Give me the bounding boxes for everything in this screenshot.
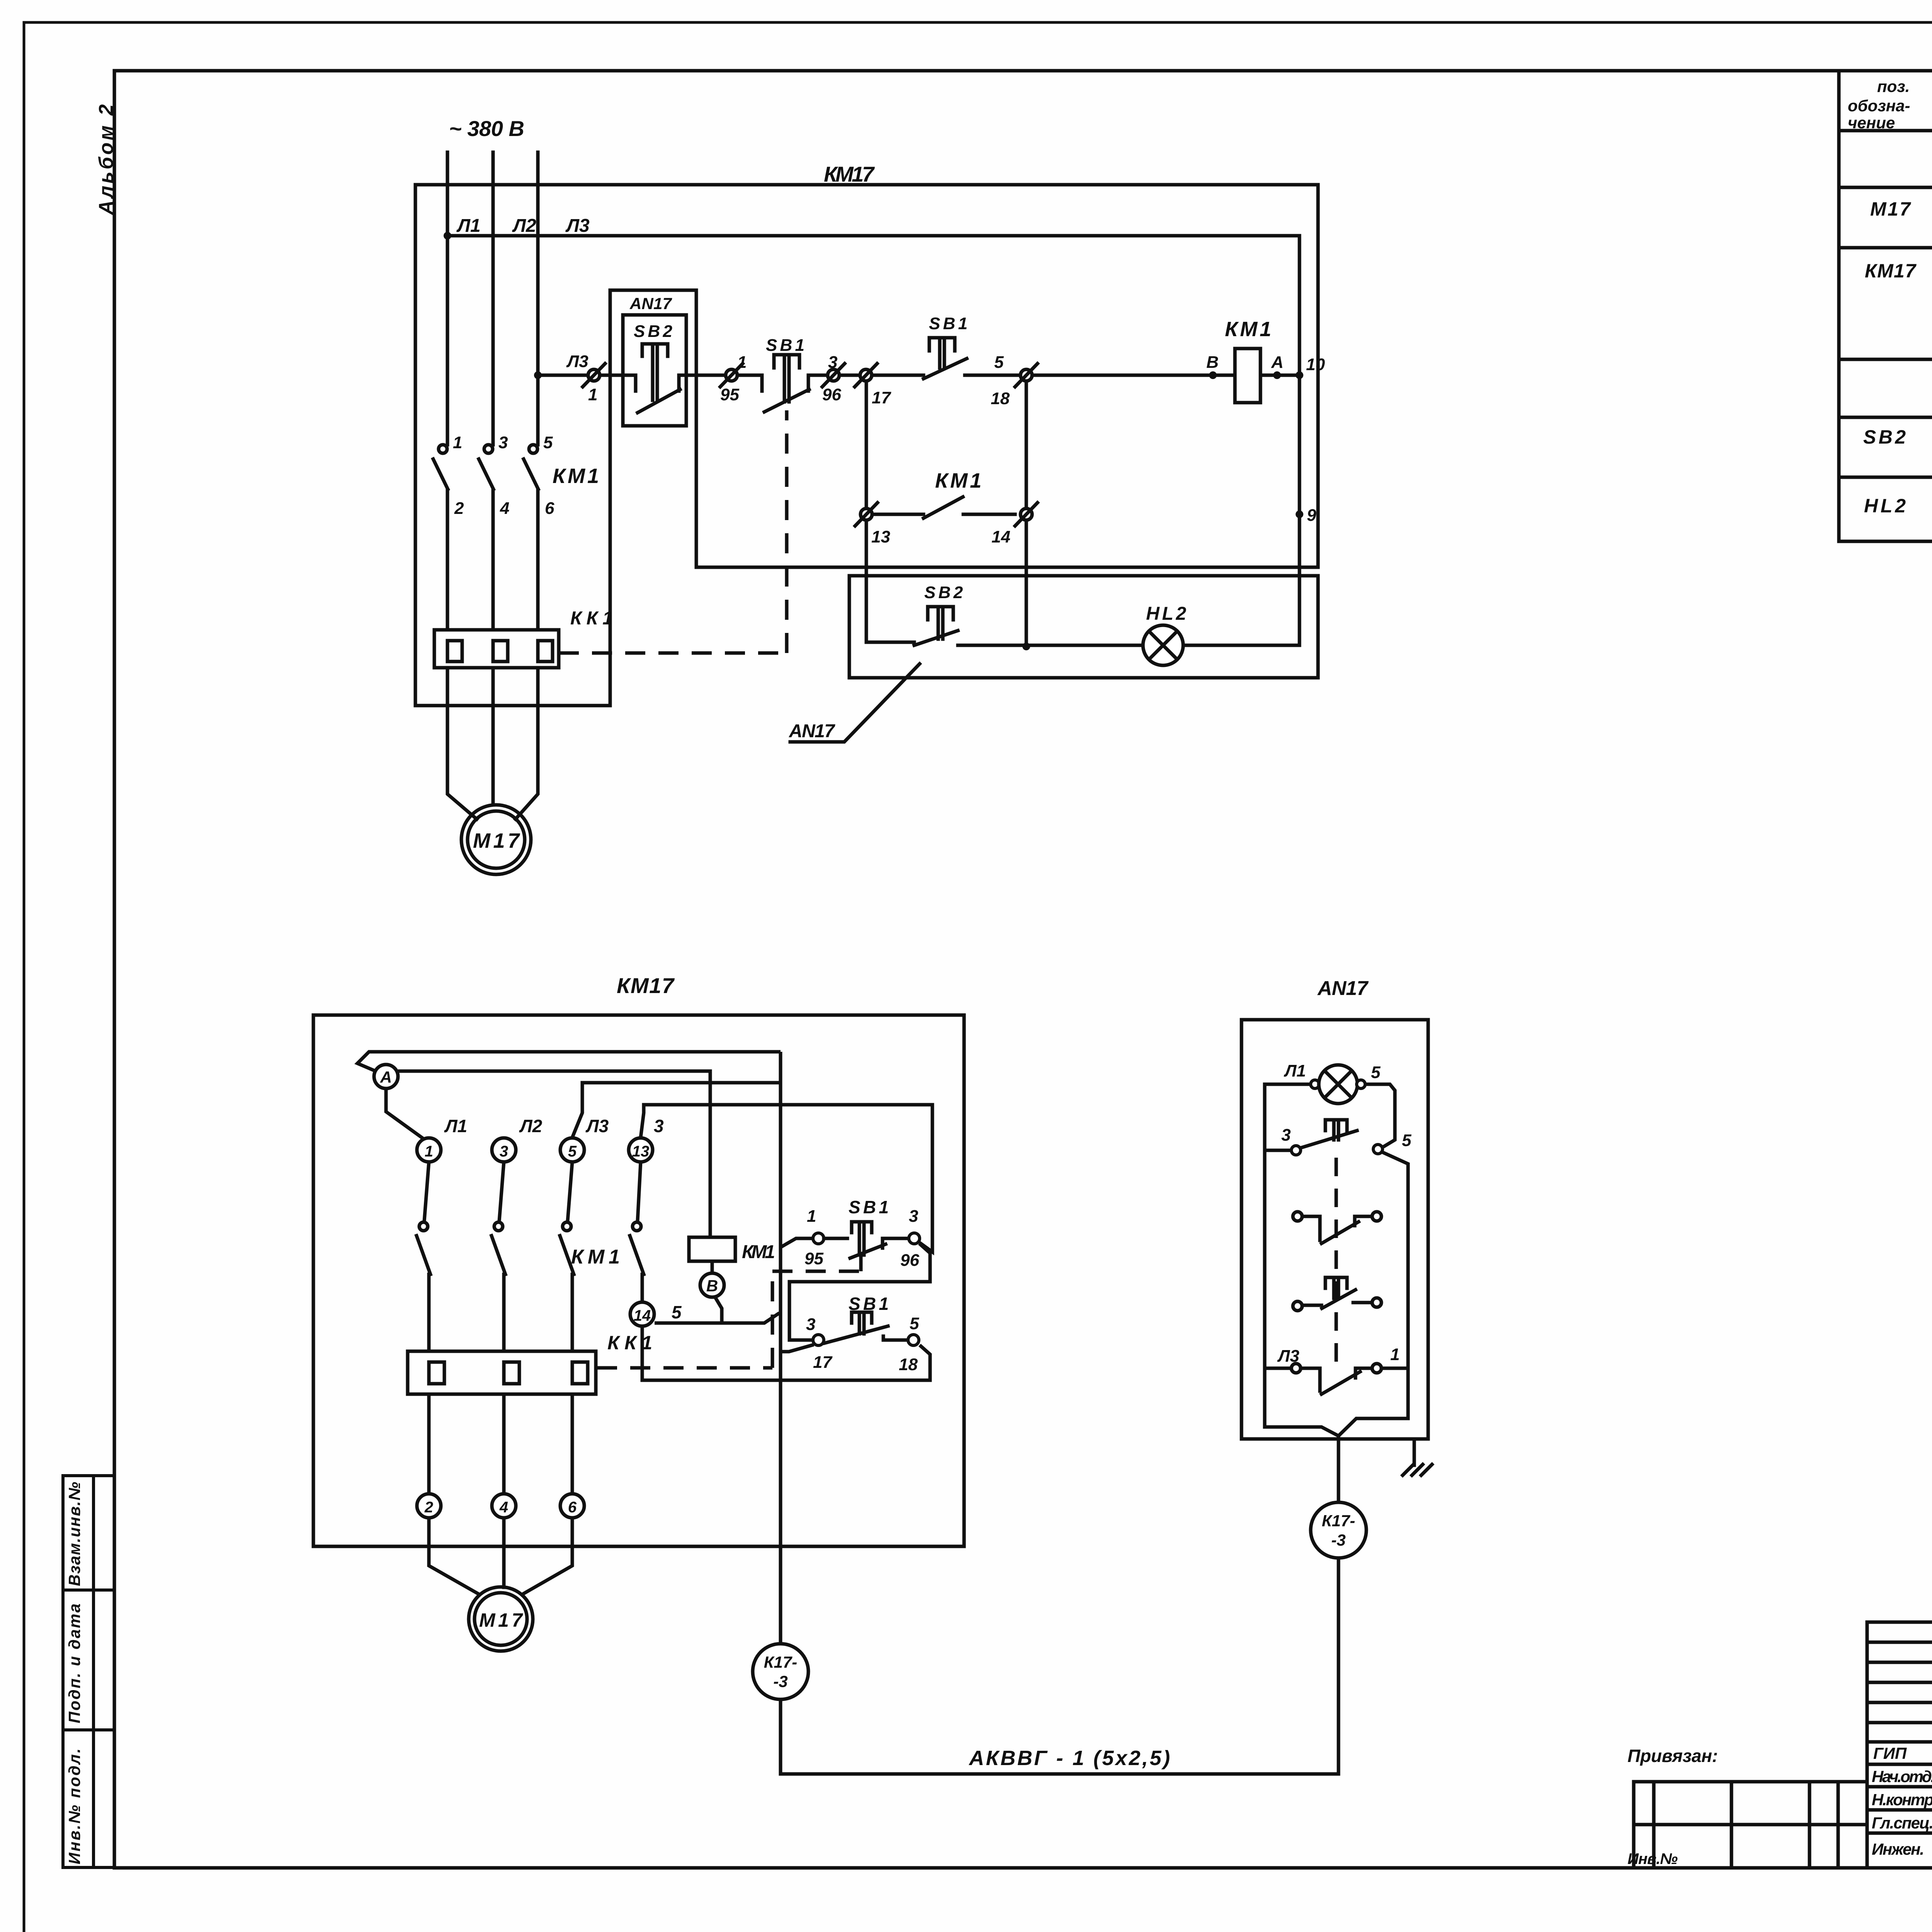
svg-text:SВ1: SВ1 bbox=[766, 336, 804, 355]
stamp box Взам.инв.№ bbox=[63, 1476, 114, 1590]
enclosure KM17 boundary bbox=[415, 185, 1318, 706]
svg-text:В: В bbox=[1206, 353, 1219, 372]
contact KM1 phase 1 bbox=[417, 1162, 430, 1351]
motor M17 bbox=[461, 805, 531, 874]
aux contact KM1 13-14 bbox=[923, 497, 963, 518]
svg-text:Л3: Л3 bbox=[565, 216, 590, 236]
wire 14 to 18 bbox=[642, 1326, 930, 1380]
svg-text:9: 9 bbox=[1307, 506, 1316, 525]
thermal relay KK1 heaters bbox=[434, 630, 559, 668]
svg-text:18: 18 bbox=[991, 389, 1010, 408]
starter box KM17 bbox=[313, 1015, 964, 1546]
svg-text:К17-: К17- bbox=[1322, 1512, 1355, 1530]
control tap junction on L3 bbox=[534, 371, 542, 379]
wire 17 to cable bbox=[779, 1345, 814, 1352]
svg-text:КМ1: КМ1 bbox=[742, 1242, 775, 1262]
cable circle K17-3 bbox=[753, 1644, 808, 1699]
node 96 bbox=[909, 1233, 920, 1244]
svg-text:М17: М17 bbox=[479, 1609, 523, 1631]
wire into AN17 post bbox=[600, 374, 636, 377]
svg-text:3: 3 bbox=[654, 1116, 664, 1136]
svg-text:3: 3 bbox=[909, 1207, 918, 1226]
terminal 5 bbox=[560, 1138, 584, 1162]
wire coil to node B bbox=[711, 1261, 714, 1273]
svg-text:96: 96 bbox=[822, 385, 841, 404]
cable route АКВВГ bbox=[781, 1558, 1338, 1774]
wire terminal 5 to cable bbox=[572, 1083, 781, 1138]
svg-text:Инжен.: Инжен. bbox=[1872, 1840, 1924, 1858]
post box AN17 bbox=[1242, 1020, 1428, 1439]
node B dot bbox=[1209, 371, 1217, 379]
svg-text:Привязан:: Привязан: bbox=[1628, 1746, 1718, 1766]
wire left bus bbox=[1265, 1084, 1338, 1436]
svg-text:SВ2: SВ2 bbox=[1863, 426, 1906, 448]
svg-text:поз.: поз. bbox=[1877, 77, 1910, 95]
wire coil to node 10 bbox=[1260, 374, 1299, 377]
core marker 3/96 bbox=[822, 364, 845, 387]
svg-text:М17: М17 bbox=[473, 829, 520, 852]
wire cable to 95 bbox=[781, 1238, 812, 1247]
terminal 6 bbox=[560, 1494, 584, 1518]
wire terminal 4 to motor bbox=[502, 1518, 506, 1587]
wire 17 to SB1 start bbox=[872, 374, 923, 377]
core marker 17 bbox=[855, 364, 877, 387]
svg-text:Взам.инв.№: Взам.инв.№ bbox=[65, 1482, 83, 1586]
wire 18 branch down through 14 to lamp line bbox=[1025, 381, 1028, 509]
contact terminal 3 bbox=[1291, 1146, 1301, 1155]
svg-text:АN17: АN17 bbox=[629, 294, 672, 313]
svg-text:чение: чение bbox=[1848, 114, 1895, 132]
svg-text:КМ17: КМ17 bbox=[617, 973, 675, 998]
lamp terminal right bbox=[1357, 1080, 1365, 1088]
svg-text:ГИП: ГИП bbox=[1873, 1744, 1907, 1762]
svg-text:1: 1 bbox=[807, 1207, 816, 1226]
cable stub to K17-3 bbox=[1337, 1436, 1340, 1502]
svg-text:SВ1: SВ1 bbox=[929, 314, 968, 333]
svg-text:13: 13 bbox=[871, 527, 890, 546]
svg-text:Л3: Л3 bbox=[566, 352, 588, 371]
svg-text:Л1: Л1 bbox=[444, 1116, 467, 1136]
bottom contact NC row bbox=[1265, 1364, 1406, 1394]
wire terminal 2 to motor bbox=[429, 1518, 479, 1594]
svg-text:17: 17 bbox=[813, 1353, 833, 1372]
wire phase L1 vertical bbox=[446, 152, 449, 445]
svg-text:13: 13 bbox=[632, 1143, 650, 1160]
svg-text:17: 17 bbox=[872, 388, 891, 407]
terminal 13 bbox=[629, 1138, 653, 1162]
svg-text:~ 380 В: ~ 380 В bbox=[449, 116, 524, 141]
pushbutton SB2 (NO, lamp circuit) bbox=[866, 607, 958, 645]
wire 96 to 17 bbox=[839, 374, 861, 377]
motor M17 bbox=[469, 1587, 533, 1651]
wire 13 to aux contact bbox=[872, 513, 923, 516]
contact KM1 aux bbox=[630, 1162, 644, 1302]
svg-text:95: 95 bbox=[804, 1249, 823, 1268]
mechanical link KK1 to its contact (dashed) bbox=[559, 410, 787, 653]
svg-text:Н.контр.: Н.контр. bbox=[1872, 1791, 1932, 1809]
pushbutton SB2 (NC stop) bbox=[636, 344, 696, 413]
core marker A bbox=[374, 1065, 398, 1088]
svg-text:6: 6 bbox=[568, 1499, 577, 1516]
wire 17 branch down to 13 bbox=[865, 381, 868, 509]
wire A down to terminal 1 bbox=[386, 1088, 425, 1140]
svg-text:3: 3 bbox=[500, 1143, 508, 1160]
title block outline bbox=[1867, 1621, 1932, 1624]
wire contact 5 to right bus bbox=[1338, 1152, 1408, 1436]
node 95 bbox=[813, 1233, 824, 1244]
wire terminal 6 to motor bbox=[522, 1518, 572, 1594]
junction L1-bus bbox=[444, 232, 451, 240]
wire terminal 13 to 96 bbox=[641, 1105, 932, 1252]
wire KK1 to terminal 2 bbox=[427, 1394, 431, 1494]
pushbutton SB1 (NO start) bbox=[923, 338, 1021, 379]
svg-text:1: 1 bbox=[737, 353, 747, 372]
cable circle K17-3 (AN17 side) bbox=[1311, 1502, 1366, 1558]
contact KM1 phase 2 bbox=[492, 1162, 505, 1351]
svg-text:5: 5 bbox=[568, 1143, 577, 1160]
svg-text:-3: -3 bbox=[773, 1672, 787, 1690]
pushbutton start row bbox=[1293, 1277, 1381, 1311]
svg-text:Инв.№ подл.: Инв.№ подл. bbox=[65, 1748, 83, 1864]
contactor KM1 main contact 3-4 bbox=[479, 445, 493, 630]
thermal contact SB1 95-96 bbox=[824, 1222, 909, 1258]
svg-text:14: 14 bbox=[992, 527, 1010, 546]
svg-text:В: В bbox=[706, 1277, 718, 1295]
wire 18 to coil node B bbox=[1032, 374, 1235, 377]
svg-text:10: 10 bbox=[1306, 355, 1325, 374]
spare contact NC row bbox=[1293, 1212, 1381, 1243]
lamp HL2 bbox=[1143, 625, 1183, 665]
node 18 bbox=[908, 1335, 919, 1345]
wire L3 to core marker bbox=[538, 374, 588, 377]
wire to marker 1/95 bbox=[696, 374, 726, 377]
svg-text:2: 2 bbox=[424, 1499, 433, 1516]
signature rows bbox=[1867, 1742, 1932, 1833]
svg-text:Л1: Л1 bbox=[456, 216, 481, 236]
coil KM1 bbox=[1235, 349, 1260, 403]
svg-text:SВ1: SВ1 bbox=[849, 1197, 889, 1217]
stamp box Подп. и дата bbox=[63, 1590, 114, 1730]
svg-text:КМ1: КМ1 bbox=[1225, 318, 1271, 341]
svg-text:1: 1 bbox=[1390, 1345, 1400, 1364]
contact terminal 5 bbox=[1373, 1145, 1383, 1154]
core marker 1/95 bbox=[720, 364, 743, 387]
core marker B bbox=[700, 1273, 724, 1297]
svg-text:Гл.спец.: Гл.спец. bbox=[1872, 1814, 1932, 1832]
svg-text:3: 3 bbox=[498, 433, 508, 452]
ground symbol bbox=[1403, 1439, 1432, 1475]
svg-text:-3: -3 bbox=[1331, 1531, 1345, 1549]
upper thin rows bbox=[1867, 1642, 1932, 1723]
junction node 10 bbox=[1296, 371, 1303, 379]
terminal 2 bbox=[417, 1494, 441, 1518]
svg-text:АN17: АN17 bbox=[789, 721, 835, 742]
svg-text:КМ17: КМ17 bbox=[1865, 260, 1917, 282]
svg-text:АN17: АN17 bbox=[1317, 977, 1369, 1000]
svg-text:Нач.отд.: Нач.отд. bbox=[1872, 1767, 1932, 1786]
wire phase L3 vertical bbox=[536, 152, 540, 445]
mechanical link dashed KK1-SB1 bbox=[597, 1254, 861, 1368]
post AN17 outline (around SB2) bbox=[623, 315, 686, 426]
svg-text:обозна-: обозна- bbox=[1848, 97, 1910, 115]
svg-text:КМ1: КМ1 bbox=[935, 469, 981, 492]
wire 14 / 5 to cable bbox=[655, 1313, 779, 1323]
wire KK1 to terminal 4 bbox=[502, 1394, 506, 1494]
wire phase L2 vertical bbox=[492, 152, 495, 445]
svg-text:А: А bbox=[380, 1068, 392, 1086]
wire bus to contact 3 bbox=[1265, 1149, 1291, 1152]
svg-text:Инв.№: Инв.№ bbox=[1628, 1850, 1678, 1867]
svg-text:4: 4 bbox=[499, 1499, 508, 1516]
svg-text:5: 5 bbox=[543, 433, 553, 452]
wire KK1 to terminal 6 bbox=[571, 1394, 574, 1494]
svg-text:95: 95 bbox=[720, 385, 739, 404]
svg-text:6: 6 bbox=[545, 499, 554, 518]
svg-text:А: А bbox=[1271, 353, 1284, 372]
svg-text:Л1: Л1 bbox=[1284, 1061, 1306, 1080]
terminal 1 bbox=[417, 1138, 441, 1162]
wire lamp to contact 5 bbox=[1365, 1084, 1395, 1147]
svg-text:5: 5 bbox=[994, 353, 1004, 372]
svg-text:КМ1: КМ1 bbox=[571, 1246, 620, 1268]
svg-text:2: 2 bbox=[454, 499, 464, 518]
svg-text:М17: М17 bbox=[1870, 198, 1911, 220]
thermal contact 95-96 with button actuator bbox=[762, 355, 828, 412]
wire core A to cable bbox=[357, 1052, 781, 1071]
svg-text:3: 3 bbox=[806, 1315, 815, 1334]
wire A to KM1 coil bbox=[398, 1071, 710, 1237]
svg-text:Подп. и дата: Подп. и дата bbox=[65, 1604, 83, 1723]
junction lamp line / 14 branch bbox=[1022, 643, 1030, 650]
svg-text:SВ2: SВ2 bbox=[634, 322, 673, 341]
post AN17 lamp box bbox=[849, 576, 1318, 678]
svg-text:КК1: КК1 bbox=[607, 1332, 652, 1354]
left attachment table bbox=[1634, 1782, 1867, 1868]
node 17 bbox=[813, 1335, 824, 1345]
wire B to node 5 bbox=[715, 1297, 722, 1323]
node A dot bbox=[1273, 371, 1281, 379]
svg-text:3: 3 bbox=[828, 353, 837, 372]
svg-text:14: 14 bbox=[634, 1307, 651, 1324]
svg-text:КМ1: КМ1 bbox=[553, 464, 599, 488]
coil KM1 bbox=[689, 1237, 735, 1261]
contact KM1 phase 3 bbox=[560, 1162, 574, 1351]
terminal 14 bbox=[630, 1302, 654, 1326]
leader AN17 bbox=[790, 664, 920, 742]
svg-text:3: 3 bbox=[1281, 1126, 1291, 1145]
stamp box Инв.№ подл. bbox=[63, 1730, 114, 1867]
svg-text:1: 1 bbox=[588, 385, 597, 404]
mechanical link dashed bbox=[1335, 1158, 1338, 1367]
contactor KM1 main contact 1-2 bbox=[433, 445, 448, 630]
wire 13 branch down into AN17 bbox=[865, 520, 868, 642]
svg-text:1: 1 bbox=[453, 433, 462, 452]
svg-text:Л3: Л3 bbox=[585, 1116, 609, 1136]
svg-text:Л2: Л2 bbox=[512, 216, 536, 236]
wire control bus from L1 to right side bbox=[447, 236, 1299, 644]
pushbutton SB1 start bbox=[825, 1312, 908, 1343]
svg-text:5: 5 bbox=[1371, 1063, 1381, 1082]
pushbutton SB2 contact (NC) bbox=[1301, 1120, 1357, 1148]
svg-text:5: 5 bbox=[672, 1302, 682, 1322]
svg-text:Л3: Л3 bbox=[1277, 1347, 1299, 1366]
cable riser to K17-3 bbox=[779, 1052, 782, 1644]
lamp terminal left bbox=[1311, 1080, 1319, 1088]
svg-text:SВ2: SВ2 bbox=[924, 583, 963, 602]
svg-text:4: 4 bbox=[500, 499, 509, 518]
svg-text:18: 18 bbox=[899, 1355, 918, 1374]
svg-text:КМ17: КМ17 bbox=[824, 162, 875, 186]
svg-text:1: 1 bbox=[425, 1143, 433, 1160]
svg-text:5: 5 bbox=[910, 1314, 919, 1333]
svg-text:НL2: НL2 bbox=[1864, 495, 1906, 517]
node 9 dot bbox=[1296, 510, 1303, 518]
svg-text:5: 5 bbox=[1402, 1131, 1412, 1150]
wire 96 to 17 bbox=[789, 1243, 930, 1340]
wire marker to KK1 contact bbox=[737, 374, 762, 377]
wire motor leads M17 bbox=[447, 668, 477, 819]
svg-text:АКВВГ - 1 (5х2,5): АКВВГ - 1 (5х2,5) bbox=[968, 1747, 1170, 1770]
svg-text:96: 96 bbox=[900, 1251, 919, 1270]
svg-text:НL2: НL2 bbox=[1146, 604, 1186, 624]
core marker 13 bbox=[855, 503, 878, 526]
lamp HL2 bbox=[1319, 1065, 1357, 1104]
thermal relay KK1 bbox=[408, 1351, 596, 1394]
wire lamp line bbox=[958, 644, 1143, 647]
svg-text:Л2: Л2 bbox=[519, 1116, 543, 1136]
contactor KM1 main contact 5-6 bbox=[524, 445, 538, 630]
terminal 4 bbox=[492, 1494, 516, 1518]
svg-text:К17-: К17- bbox=[764, 1653, 798, 1671]
terminal 3 bbox=[492, 1138, 516, 1162]
core marker Л3/1 bbox=[583, 364, 605, 387]
core marker 14 bbox=[1015, 503, 1037, 526]
core marker 5/18 bbox=[1015, 364, 1037, 387]
svg-text:КК1: КК1 bbox=[570, 608, 613, 629]
